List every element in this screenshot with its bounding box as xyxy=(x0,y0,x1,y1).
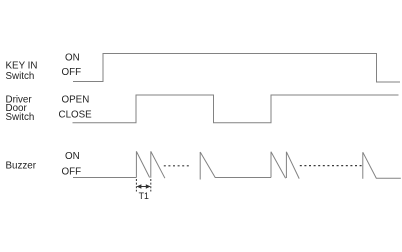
svg-text:OFF: OFF xyxy=(62,67,82,78)
svg-text:Switch: Switch xyxy=(6,71,35,82)
svg-text:ON: ON xyxy=(65,151,80,162)
svg-text:T1: T1 xyxy=(139,191,149,201)
svg-text:CLOSE: CLOSE xyxy=(59,109,93,120)
svg-text:Switch: Switch xyxy=(6,112,35,123)
svg-text:OPEN: OPEN xyxy=(62,94,90,105)
svg-text:ON: ON xyxy=(65,53,80,64)
svg-text:Buzzer: Buzzer xyxy=(6,160,37,171)
svg-text:OFF: OFF xyxy=(62,166,82,177)
